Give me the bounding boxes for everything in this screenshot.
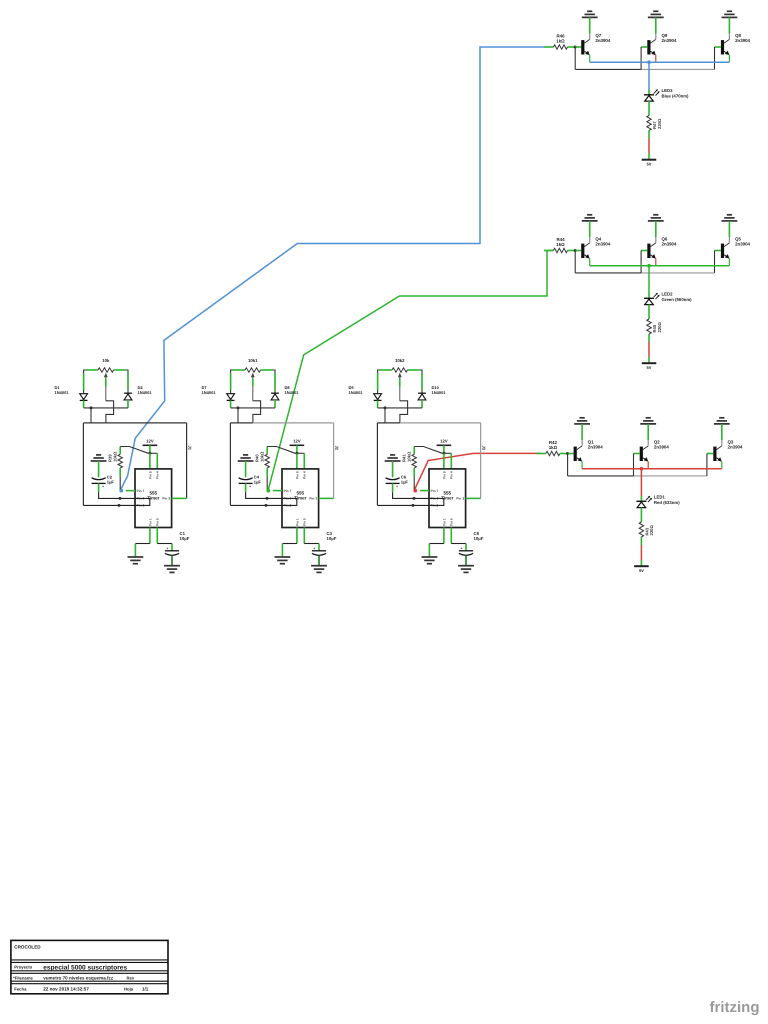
transistor Q7 2n3904 <box>581 17 611 62</box>
wire wiper tail <box>253 401 261 423</box>
net box J1 right edge <box>186 423 188 499</box>
svg-text:Pin 7: Pin 7 <box>431 489 439 493</box>
wire pot right green <box>408 369 420 371</box>
wire base rail horizontal <box>575 272 641 274</box>
wire below D8 <box>274 400 276 408</box>
svg-text:2n3904: 2n3904 <box>735 242 750 247</box>
wire LED to resistor <box>648 101 650 116</box>
wire below D2 <box>127 400 129 408</box>
wire pin1 down <box>443 528 445 544</box>
wire base rail rise 3 <box>714 251 716 273</box>
wire wiper tail <box>400 401 408 423</box>
capacitor C4 1uF <box>239 475 262 489</box>
wire pin stub LED anode <box>640 496 642 501</box>
wire R39 top to 12V node <box>120 447 148 454</box>
svg-text:Hoja: Hoja <box>124 987 134 992</box>
wire diode junction rail <box>378 407 422 409</box>
transistor Q5 2n3904 <box>721 221 751 266</box>
wire pin5 jog <box>157 543 172 545</box>
wire pot left loop <box>84 370 98 393</box>
wire 12V drop <box>149 445 151 453</box>
ground C1 <box>164 566 180 573</box>
wire base rail horizontal <box>568 475 634 477</box>
capacitor C3 10uF <box>312 531 337 555</box>
resistor R44 1k <box>544 237 575 253</box>
svg-text:220Ω: 220Ω <box>657 322 662 333</box>
net box J3 left edge <box>376 423 378 506</box>
wire base rail horizontal gray <box>634 475 707 477</box>
wire pot right loop <box>114 370 129 393</box>
node pin2 tie <box>118 504 121 507</box>
wire Vcc to pin4 <box>303 453 305 469</box>
wire pin stub LED anode <box>648 293 650 298</box>
transistor Q4 2n3904 <box>581 221 611 266</box>
diode D9 1N4001 <box>349 385 382 400</box>
svg-text:Red (633nm): Red (633nm) <box>654 500 680 505</box>
wire base stub Q second <box>641 250 647 252</box>
svg-text:5V: 5V <box>639 568 644 573</box>
potentiometer 10k <box>98 358 114 401</box>
wire base stub Q third <box>715 46 721 48</box>
capacitor C5 10uF <box>459 531 484 555</box>
wire base stub Q second <box>634 453 640 455</box>
node pin2 tie <box>412 504 415 507</box>
wire base rail rise 2 <box>633 454 635 476</box>
svg-text:+: + <box>249 485 251 489</box>
IC 555 timer <box>135 469 172 528</box>
transistor Q6 2n3904 <box>647 221 677 266</box>
IC 555 timer <box>282 469 319 528</box>
svg-text:10µF: 10µF <box>327 536 337 541</box>
node 12V junction <box>295 452 298 455</box>
node base junction R46 <box>574 46 577 49</box>
diode D10 1N4001 <box>418 385 446 400</box>
svg-text:Fecha: Fecha <box>14 987 27 992</box>
svg-text:10µF: 10µF <box>474 536 484 541</box>
wire pot left drop green <box>83 373 85 390</box>
svg-text:2n3904: 2n3904 <box>588 445 603 450</box>
wire LED to resistor <box>640 508 642 523</box>
LED LED3 Blue (470nm) <box>644 88 689 101</box>
net box J2 left edge <box>229 423 231 506</box>
node emitter rail junction <box>640 467 644 471</box>
svg-text:+: + <box>313 546 315 550</box>
svg-text:vumetro 70 niveles esquema.fzz: vumetro 70 niveles esquema.fzz <box>43 975 114 980</box>
wire Vcc to pin8 <box>443 453 445 469</box>
svg-text:CROCOLED: CROCOLED <box>14 945 41 950</box>
wire ground to cap <box>245 461 247 477</box>
wire 12V node horizontal <box>295 452 304 454</box>
svg-text:Pin 8: Pin 8 <box>442 471 446 479</box>
resistor R40 10k <box>255 447 270 468</box>
svg-text:2n3904: 2n3904 <box>654 445 669 450</box>
net box J2 right edge <box>333 423 335 499</box>
svg-text:+: + <box>396 485 398 489</box>
wire base rail rise 2 <box>640 251 642 273</box>
capacitor C6 1uF <box>386 475 409 489</box>
wire green J2 to R44 <box>268 251 554 491</box>
wire pin stub 5V <box>640 560 642 566</box>
svg-text:1N4001: 1N4001 <box>55 390 70 395</box>
wire base rail rise 3 <box>706 454 708 476</box>
power 5V <box>642 160 657 167</box>
wire below D1 <box>83 400 85 408</box>
wire pin3 out <box>319 497 334 499</box>
ground above Q5 <box>722 215 738 221</box>
power 12V <box>437 439 452 446</box>
svg-text:1N4001: 1N4001 <box>285 390 300 395</box>
wire pin1 down <box>149 528 151 544</box>
wire LED to resistor <box>648 305 650 320</box>
ground above Q9 <box>648 11 664 17</box>
svg-text:220Ω: 220Ω <box>649 525 654 536</box>
LED LED1 Red (633nm) <box>636 494 680 507</box>
wire base stub Q third <box>707 453 713 455</box>
svg-text:J1: J1 <box>187 446 192 451</box>
wire base stub Q first <box>568 453 574 455</box>
wire C3 to ground <box>318 556 320 566</box>
svg-text:1N4001: 1N4001 <box>349 390 364 395</box>
wire below D10 <box>421 400 423 408</box>
power 12V <box>290 439 305 446</box>
wire pot left loop <box>231 370 245 393</box>
wire pin5 to C3 <box>318 544 320 551</box>
transistor Q1 2n3904 <box>574 424 604 469</box>
net box J2 top edge <box>230 422 253 424</box>
wire to 5V supply <box>648 342 650 357</box>
svg-text:10kΩ: 10kΩ <box>112 451 117 462</box>
svg-text:220Ω: 220Ω <box>657 118 662 129</box>
ground C3 <box>311 566 327 573</box>
ground above Q2 <box>640 418 656 424</box>
svg-text:J2: J2 <box>334 446 339 451</box>
wire pot right loop <box>408 370 423 393</box>
wire R41 bottom stub <box>413 468 415 477</box>
wire C5 to ground <box>465 556 467 566</box>
wire wiper tail <box>106 401 114 423</box>
svg-text:2n3904: 2n3904 <box>735 38 750 43</box>
svg-text:10kΩ: 10kΩ <box>259 451 264 462</box>
node emitter rail junction <box>647 264 651 268</box>
wire pin1 jog <box>282 543 297 545</box>
wire red J3 to R42 <box>414 453 541 490</box>
svg-text:Green (560nm): Green (560nm) <box>662 297 693 302</box>
wire pin5 down <box>156 528 158 544</box>
transistor Q2 2n3904 <box>640 424 670 469</box>
wire rail to LED <box>648 266 650 293</box>
node pin7 wire endpoint <box>266 489 270 493</box>
wire emitter rail <box>590 265 730 267</box>
svg-text:10k2: 10k2 <box>395 358 405 363</box>
svg-text:Pin 5: Pin 5 <box>156 518 160 526</box>
svg-text:2n3904: 2n3904 <box>662 38 677 43</box>
wire pot left green <box>233 369 245 371</box>
wire R40 top to 12V node <box>267 447 295 454</box>
wire pin5 down <box>303 528 305 544</box>
wire pin5 to C1 <box>171 544 173 551</box>
svg-text:Pin 1: Pin 1 <box>442 518 446 526</box>
wire pin1 to ground <box>134 544 136 557</box>
wire below D9 <box>377 400 379 408</box>
svg-text:Pin 3: Pin 3 <box>309 497 317 501</box>
svg-text:5V: 5V <box>647 365 652 370</box>
wire R39 bottom stub <box>119 468 121 477</box>
diode D8 1N4001 <box>271 385 299 400</box>
node diode junction <box>384 406 387 409</box>
wire pot right drop green <box>274 373 276 390</box>
wire C4 to pin6 <box>246 492 282 498</box>
wire C2 bottom stub <box>98 483 100 492</box>
ground above Q8 <box>722 11 738 17</box>
svg-text:12V: 12V <box>146 439 154 444</box>
svg-text:Pin 4: Pin 4 <box>450 471 454 479</box>
capacitor C1 10uF <box>165 531 190 555</box>
wire base rail drop 1 <box>574 47 576 69</box>
wire pin1 jog <box>135 543 150 545</box>
node pin6 wire <box>119 497 122 500</box>
svg-text:1kΩ: 1kΩ <box>549 445 558 450</box>
wire base rail drop 1 <box>574 251 576 273</box>
wire pot right drop green <box>421 373 423 390</box>
svg-text:especial 5000 suscriptores: especial 5000 suscriptores <box>43 964 127 971</box>
power 12V <box>143 439 158 446</box>
svg-text:Pin 3: Pin 3 <box>456 497 464 501</box>
wire pin1 to ground <box>281 544 283 557</box>
svg-text:1N4001: 1N4001 <box>138 390 153 395</box>
node pin7 wire endpoint <box>119 489 123 493</box>
wire pot right green <box>114 369 126 371</box>
svg-text:Pin 3: Pin 3 <box>162 497 170 501</box>
svg-text:Pin 7: Pin 7 <box>284 489 292 493</box>
resistor R47 220 <box>647 116 662 131</box>
wire emitter rail <box>582 468 722 470</box>
svg-text:Pin 8: Pin 8 <box>295 471 299 479</box>
wire R41 top to 12V node <box>414 447 442 454</box>
wire pin7 stub <box>273 490 282 492</box>
wire diode junction rail <box>84 407 128 409</box>
wire pot right loop <box>261 370 276 393</box>
svg-text:2n3904: 2n3904 <box>595 38 610 43</box>
wire pot right drop green <box>127 373 129 390</box>
wire pin stub LED anode <box>648 90 650 95</box>
wire below D7 <box>230 400 232 408</box>
ground above Q4 <box>582 215 598 221</box>
svg-text:1µF: 1µF <box>401 480 409 485</box>
capacitor C2 1uF <box>92 475 115 489</box>
svg-text:2n3904: 2n3904 <box>595 242 610 247</box>
wire Vcc to pin8 <box>296 453 298 469</box>
svg-text:Pin 4: Pin 4 <box>156 471 160 479</box>
svg-text:Pin 1: Pin 1 <box>148 518 152 526</box>
svg-text:+: + <box>102 485 104 489</box>
wire pin5 to C5 <box>465 544 467 551</box>
svg-text:1µF: 1µF <box>107 480 115 485</box>
svg-text:Pin 7: Pin 7 <box>137 489 145 493</box>
wire pot left drop green <box>230 373 232 390</box>
wire rail to LED <box>648 62 650 89</box>
ground above cap <box>91 455 107 461</box>
resistor R42 1k <box>536 440 567 456</box>
wire R40 bottom stub <box>266 468 268 477</box>
svg-text:1N4001: 1N4001 <box>432 390 447 395</box>
wire rail to LED <box>640 469 642 496</box>
wire R41 to pin7 node <box>413 477 415 491</box>
net box J3 top edge <box>377 422 400 424</box>
svg-text:+: + <box>166 546 168 550</box>
svg-text:*Filename: *Filename <box>13 975 33 980</box>
ground above cap <box>238 455 254 461</box>
node emitter rail junction <box>647 60 651 64</box>
diode D1 1N4001 <box>55 385 88 400</box>
svg-text:10µF: 10µF <box>180 536 190 541</box>
wire base stub Q second <box>641 46 647 48</box>
ground above Q3 <box>714 418 730 424</box>
diode D7 1N4001 <box>202 385 235 400</box>
net box J1 left edge <box>82 423 84 506</box>
node base junction R42 <box>566 452 569 455</box>
node 12V junction <box>442 452 445 455</box>
svg-text:22 nov 2018 14:32:57: 22 nov 2018 14:32:57 <box>43 987 89 992</box>
net box J3 right edge <box>480 423 482 499</box>
wire base stub Q first <box>575 46 581 48</box>
svg-text:1N4001: 1N4001 <box>202 390 217 395</box>
wire pin1 jog <box>429 543 444 545</box>
svg-text:Blue (470nm): Blue (470nm) <box>662 94 690 99</box>
svg-text:LED1: LED1 <box>654 494 666 499</box>
wire pot right green <box>261 369 273 371</box>
wire base rail drop 1 <box>567 454 569 476</box>
wire base stub Q third <box>715 250 721 252</box>
svg-text:LED3: LED3 <box>662 88 674 93</box>
node pin7 wire endpoint <box>413 489 417 493</box>
node pin2 tie <box>265 504 268 507</box>
wire base rail rise 2 <box>640 47 642 69</box>
resistor R39 10k <box>108 447 123 468</box>
wire to 5V supply <box>648 139 650 154</box>
wire pin2 tie <box>377 498 443 505</box>
wire Vcc to pin4 <box>156 453 158 469</box>
svg-text:Rev: Rev <box>127 975 135 980</box>
svg-text:+: + <box>460 546 462 550</box>
svg-text:12V: 12V <box>293 439 301 444</box>
wire pin3 out <box>172 497 187 499</box>
LED LED2 Green (560nm) <box>644 291 692 304</box>
resistor R43 220 <box>639 522 654 537</box>
ground above Q1 <box>574 418 590 424</box>
wire pin2 tie <box>83 498 149 505</box>
resistor R46 1k <box>544 34 575 50</box>
node pin6 wire <box>266 497 269 500</box>
svg-text:1kΩ: 1kΩ <box>556 242 565 247</box>
svg-text:Pin 5: Pin 5 <box>303 518 307 526</box>
wire 12V drop <box>443 445 445 453</box>
svg-text:J3: J3 <box>481 446 486 451</box>
wire Vcc to pin4 <box>450 453 452 469</box>
node 12V junction <box>148 452 151 455</box>
wire C6 bottom stub <box>392 483 394 492</box>
wire 12V node horizontal <box>148 452 157 454</box>
svg-text:12V: 12V <box>440 439 448 444</box>
wire base stub Q first <box>575 250 581 252</box>
wire junction drop to box <box>90 408 92 423</box>
svg-text:Pin 1: Pin 1 <box>295 518 299 526</box>
svg-text:10k: 10k <box>102 358 110 363</box>
wire 12V node horizontal <box>442 452 451 454</box>
wire resistor stub lower <box>640 537 642 545</box>
wire R40 to pin7 node <box>266 477 268 491</box>
resistor R41 10k <box>402 447 417 468</box>
svg-text:10kΩ: 10kΩ <box>406 451 411 462</box>
wire junction drop to box <box>237 408 239 423</box>
wire emitter rail <box>590 61 730 63</box>
transistor Q3 2n3904 <box>713 424 743 469</box>
svg-text:Pin 8: Pin 8 <box>148 471 152 479</box>
ground above Q7 <box>582 11 598 17</box>
wire junction drop to box <box>384 408 386 423</box>
svg-text:1µF: 1µF <box>254 480 262 485</box>
wire pin5 jog <box>304 543 319 545</box>
wire base rail horizontal gray <box>641 68 714 70</box>
ground above cap <box>385 455 401 461</box>
wire base rail horizontal gray <box>641 272 714 274</box>
ground C5 <box>458 566 474 573</box>
wire pin2 tie <box>230 498 296 505</box>
wire resistor stub lower <box>648 130 650 138</box>
wire pin7 stub <box>420 490 429 492</box>
wire C2 to pin6 <box>99 492 135 498</box>
diode D2 1N4001 <box>124 385 152 400</box>
svg-text:5V: 5V <box>647 161 652 166</box>
node diode junction <box>237 406 240 409</box>
wire ground to cap <box>98 461 100 477</box>
ground pin1 <box>422 557 438 564</box>
wire pin stub 5V <box>648 154 650 160</box>
wire blue J1 to R46 <box>120 47 544 491</box>
wire base rail rise 3 <box>714 47 716 69</box>
wire R39 to pin7 node <box>119 477 121 491</box>
wire resistor stub lower <box>648 334 650 342</box>
svg-text:1kΩ: 1kΩ <box>556 39 565 44</box>
wire pin1 to ground <box>428 544 430 557</box>
wire ground to cap <box>392 461 394 477</box>
svg-text:fritzing: fritzing <box>710 999 760 1016</box>
svg-text:1/1: 1/1 <box>142 987 149 992</box>
title block <box>11 940 168 993</box>
wire pot left loop <box>378 370 392 393</box>
node diode junction <box>90 406 93 409</box>
node pin6 wire <box>413 497 416 500</box>
transistor Q9 2n3904 <box>647 17 677 62</box>
wire Vcc to pin8 <box>149 453 151 469</box>
wire pin3 out <box>466 497 481 499</box>
wire C6 to pin6 <box>393 492 429 498</box>
wire pin stub 5V <box>648 357 650 363</box>
IC 555 timer <box>429 469 466 528</box>
svg-text:Pin 4: Pin 4 <box>303 471 307 479</box>
net box J1 top edge <box>83 422 106 424</box>
wire pin5 jog <box>451 543 466 545</box>
wire C4 bottom stub <box>245 483 247 492</box>
wire pot left green <box>86 369 98 371</box>
potentiometer 10k1 <box>245 358 261 401</box>
svg-text:2n3904: 2n3904 <box>662 242 677 247</box>
wire pot left green <box>380 369 392 371</box>
ground above Q6 <box>648 215 664 221</box>
resistor R45 220 <box>647 319 662 334</box>
power 5V <box>642 363 657 370</box>
wire pin7 stub <box>126 490 135 492</box>
power 5V <box>634 566 649 573</box>
